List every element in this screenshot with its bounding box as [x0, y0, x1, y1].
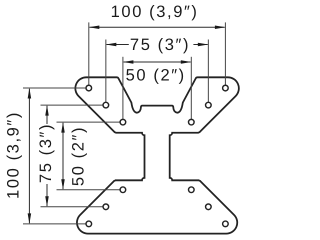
dimension line 50mm left — [62, 123, 64, 189]
extension line 50mm top left — [122, 57, 124, 122]
arrowhead 50mm left upper — [61, 122, 65, 132]
hole top-left inner (50mm) — [120, 119, 126, 125]
extension line 75mm left upper — [41, 104, 106, 106]
extension line 50mm left upper — [57, 121, 123, 123]
extension line 75mm left lower — [41, 206, 106, 208]
hole top-right outer (100mm) — [223, 85, 229, 91]
arrowhead 75mm top right — [198, 43, 209, 47]
extension line 100mm top right — [224, 22, 226, 88]
svg-text:100 (3,9″): 100 (3,9″) — [111, 3, 199, 21]
dimension line 100mm top — [90, 26, 225, 28]
svg-text:75 (3″): 75 (3″) — [37, 123, 55, 183]
extension line 100mm left upper — [23, 87, 89, 89]
arrowhead 100mm top left — [89, 26, 100, 30]
svg-text:50 (2″): 50 (2″) — [126, 66, 186, 84]
arrowhead 75mm left upper — [45, 105, 49, 116]
extension line 50mm top right — [190, 57, 192, 122]
hole bottom-right middle (75mm) — [206, 204, 212, 210]
hole top-right middle (75mm) — [206, 102, 212, 108]
arrowhead 100mm left lower — [28, 213, 32, 224]
svg-text:50 (2″): 50 (2″) — [70, 126, 88, 186]
arrowhead 75mm left lower — [45, 196, 49, 207]
VESA adapter plate outline — [75, 77, 238, 233]
hole top-left middle (75mm) — [103, 102, 109, 108]
hole bottom-right inner (50mm) — [189, 187, 195, 193]
arrowhead 75mm top left — [106, 43, 117, 47]
hole bottom-right outer (100mm) — [223, 221, 229, 227]
hole top-right inner (50mm) — [189, 119, 195, 125]
dimension line 75mm left lower tail — [46, 184, 48, 206]
hole top-left outer (100mm) — [86, 85, 92, 91]
arrowhead 50mm top right — [181, 60, 192, 64]
dimension line 75mm left upper tail — [46, 106, 48, 124]
hole bottom-left middle (75mm) — [103, 204, 109, 210]
dimension line 50mm top — [124, 61, 191, 63]
hole bottom-left inner (50mm) — [120, 187, 126, 193]
svg-text:100 (3,9″): 100 (3,9″) — [5, 111, 23, 199]
extension line 100mm left lower — [23, 223, 89, 225]
arrowhead 50mm left lower — [61, 179, 65, 190]
dimension line 100mm left — [28, 89, 30, 224]
arrowhead 50mm top left — [123, 60, 133, 64]
arrowhead 100mm left upper — [28, 88, 32, 99]
extension line 75mm top right — [207, 40, 209, 106]
dimension line 75mm top right tail — [193, 44, 207, 46]
hole bottom-left outer (100mm) — [86, 221, 92, 227]
extension line 75mm top left — [105, 40, 107, 106]
arrowhead 100mm top right — [215, 26, 226, 30]
extension line 50mm left lower — [57, 189, 123, 191]
svg-text:75 (3″): 75 (3″) — [130, 36, 190, 54]
extension line 100mm top left — [88, 22, 90, 88]
dimension line 75mm top left tail — [107, 44, 129, 46]
